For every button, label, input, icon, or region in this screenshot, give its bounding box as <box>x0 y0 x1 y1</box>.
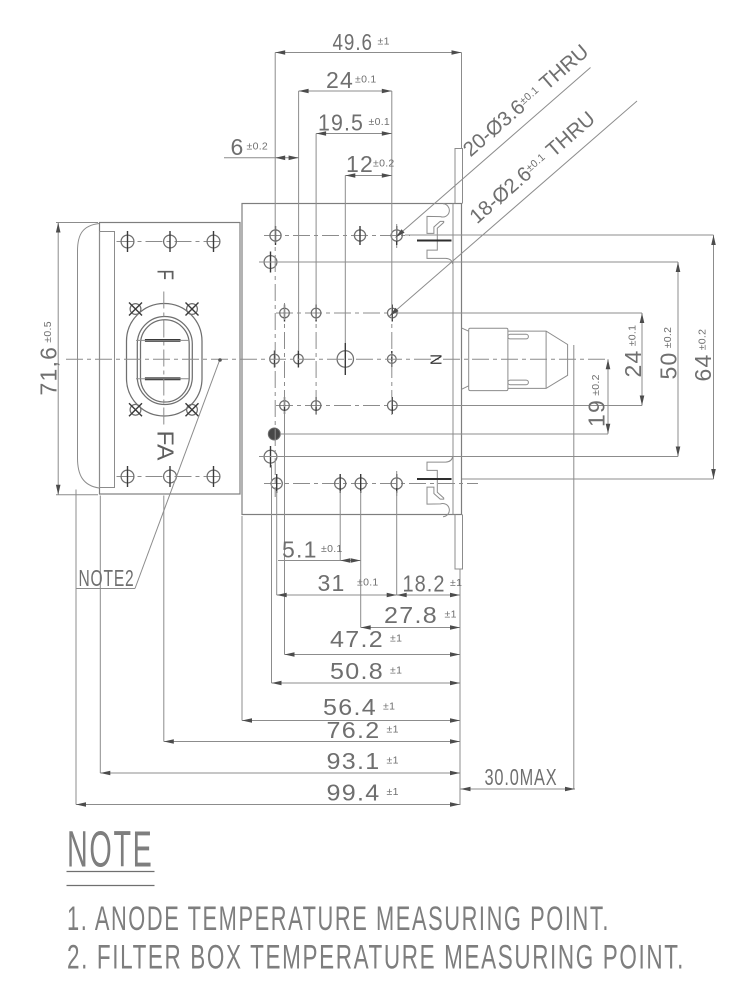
box hole B1 <box>270 226 281 245</box>
dimension 49.6 +-1 (top) <box>275 29 461 226</box>
dimension 56.4 +-1 <box>242 694 460 723</box>
box hole F1 <box>280 397 290 414</box>
bottom extension line from hole G1 <box>271 465 273 683</box>
dimension 64 +-0.2 (right) <box>690 235 716 479</box>
extension line row1 right <box>405 234 714 236</box>
box hole row3 centerline <box>276 312 400 314</box>
dimension 93.1 +-1 <box>100 748 460 775</box>
window outer flange <box>127 304 203 417</box>
dimension 24 +-0.1 (top) <box>299 67 392 351</box>
bottom extension line from flange left edge <box>99 496 101 774</box>
dimension 24 +-0.1 (right) <box>620 313 646 406</box>
top tab <box>455 149 463 204</box>
magnet body profile (left rounded outline) <box>78 224 100 489</box>
svg-text:47.2: 47.2 <box>330 626 384 652</box>
dimension 12 +-0.2 (top) <box>345 151 394 343</box>
window corner hole 1 <box>129 303 142 316</box>
bottom extension line from hole H1 <box>276 491 278 595</box>
dimension 6 +-0.2 (top left) <box>224 134 299 160</box>
svg-text:N: N <box>427 354 444 365</box>
bottom tab <box>455 515 463 570</box>
dimension 76.2 +-1 <box>164 717 460 744</box>
box hole F2 <box>311 397 321 414</box>
dimension 31 +-0.1 <box>277 570 397 597</box>
svg-text:±1: ±1 <box>383 701 395 713</box>
svg-text:24: 24 <box>326 67 354 93</box>
top clip (spring clip on box right) <box>427 204 453 264</box>
bottom extension line from tab (right reference) <box>459 569 461 805</box>
main horizontal centerline <box>66 358 608 360</box>
svg-text:12: 12 <box>346 151 374 177</box>
dimension 19.5 +-0.1 (top) <box>316 110 392 304</box>
svg-text:27.8: 27.8 <box>384 602 438 628</box>
flange hole A5 <box>164 466 177 487</box>
box hole E2 <box>294 351 304 368</box>
svg-text:31: 31 <box>318 570 346 596</box>
NOTE2 callout <box>76 358 222 591</box>
flange hole A1 <box>121 231 134 252</box>
antenna cap body <box>508 331 568 388</box>
svg-text:±1: ±1 <box>387 755 399 767</box>
vane bar lower <box>145 377 181 380</box>
svg-text:1. ANODE TEMPERATURE MEASURING: 1. ANODE TEMPERATURE MEASURING POINT. <box>67 900 610 938</box>
filter box inner right edge <box>452 204 454 515</box>
bottom extension line from hole H4 <box>396 491 398 595</box>
svg-text:F: F <box>153 270 179 281</box>
dimension 5.1 +-0.1 <box>278 537 361 563</box>
svg-text:19.5: 19.5 <box>318 110 364 136</box>
column centerline c5 bottom <box>396 471 398 496</box>
column centerline c3 <box>315 303 317 416</box>
column centerline c2 <box>284 303 286 416</box>
extension line row2 right <box>259 261 678 263</box>
box hole B3 <box>391 226 402 245</box>
box hole E1 <box>270 351 280 368</box>
column centerline c4 <box>391 303 393 416</box>
flange hole A6 <box>207 466 220 487</box>
bottom clip (mirror of top clip) <box>427 457 453 517</box>
leader 20-dia3.6 +-0.1 THRU <box>394 40 593 239</box>
svg-text:±0.1: ±0.1 <box>369 116 391 128</box>
leader 18-dia2.6 +-0.1 THRU <box>388 101 637 318</box>
NOTE title underline 1 <box>67 871 155 873</box>
NOTE title underline 2 <box>67 885 155 887</box>
vane bar upper <box>145 339 181 342</box>
box hole H1 <box>271 474 282 493</box>
window vertical centerline <box>163 292 165 429</box>
box hole row5 centerline <box>276 405 400 407</box>
dimension 18.2 +-1 <box>397 571 463 598</box>
filter box body <box>242 204 462 515</box>
svg-text:NOTE: NOTE <box>67 821 154 878</box>
window corner hole 3 <box>129 403 142 416</box>
bottom extension line from hole H3 <box>360 491 362 628</box>
svg-text:±1: ±1 <box>390 665 402 677</box>
bottom extension line from hole F1 <box>284 413 286 655</box>
window corner hole 4 <box>186 403 199 416</box>
flange hole A2 <box>164 231 177 252</box>
svg-text:18.2: 18.2 <box>403 571 446 597</box>
svg-text:±0.2: ±0.2 <box>247 141 269 153</box>
flange hole row top centerline <box>117 241 225 243</box>
flange hole A3 <box>207 231 220 252</box>
box hole H4 <box>391 474 402 493</box>
box hole row7 centerline <box>264 483 478 485</box>
window mid ring <box>137 317 192 405</box>
svg-text:±0.2: ±0.2 <box>373 158 395 170</box>
window inner ring <box>141 320 190 402</box>
dimension 27.8 +-1 <box>361 602 460 630</box>
extension line filled hole right <box>281 433 608 435</box>
svg-text:93.1: 93.1 <box>327 748 381 774</box>
bottom extension line from window center <box>163 496 165 742</box>
anode temperature measuring mark (top clip) <box>417 240 452 242</box>
dimension 19 +-0.2 (right) <box>584 359 611 434</box>
antenna cylinder <box>469 328 508 390</box>
box hole C1 <box>264 252 277 273</box>
svg-text:±1: ±1 <box>445 609 457 621</box>
box hole G1 <box>264 446 277 468</box>
svg-text:±1: ±1 <box>387 724 399 736</box>
svg-text:2. FILTER BOX TEMPERATURE MEAS: 2. FILTER BOX TEMPERATURE MEASURING POIN… <box>67 939 685 977</box>
box hole row1 centerline <box>264 235 410 237</box>
svg-text:FA: FA <box>153 431 179 461</box>
svg-text:76.2: 76.2 <box>327 717 381 743</box>
svg-text:±0.1: ±0.1 <box>355 74 377 86</box>
antenna slot bottom <box>508 380 529 385</box>
box hole H3 <box>355 474 366 493</box>
flange hole A4 <box>121 466 134 487</box>
flange edge bar <box>100 232 115 488</box>
box hole F3 <box>388 397 398 414</box>
box hole E3 (large) <box>337 343 353 375</box>
antenna slot top <box>508 334 529 339</box>
svg-text:±1: ±1 <box>378 36 390 48</box>
dimension 50 +-0.2 (right) <box>656 262 682 457</box>
filled hole (measuring point) <box>268 428 280 440</box>
svg-text:±0.1: ±0.1 <box>321 543 343 555</box>
svg-text:49.6: 49.6 <box>333 29 374 55</box>
svg-text:±1: ±1 <box>387 786 399 798</box>
antenna cap left edge <box>545 331 547 388</box>
flange hole row bottom centerline <box>117 476 225 478</box>
svg-text:±1: ±1 <box>390 633 402 645</box>
box hole D2 <box>311 305 321 322</box>
box hole B2 <box>354 226 365 245</box>
column centerline c5 top <box>396 224 398 248</box>
bottom extension line from hole H2 <box>339 491 341 561</box>
svg-text:±0.1: ±0.1 <box>357 577 379 589</box>
svg-text:NOTE2: NOTE2 <box>79 565 135 591</box>
svg-text:±1: ±1 <box>450 577 462 589</box>
dimension 30.0MAX <box>461 345 576 791</box>
dimension 71.6 +-0.5 (left) <box>36 223 99 495</box>
extension line mark bottom right <box>462 478 714 480</box>
box hole E4 <box>387 351 396 367</box>
mounting flange plate <box>100 223 241 495</box>
svg-text:30.0MAX: 30.0MAX <box>485 764 558 790</box>
svg-text:50.8: 50.8 <box>330 658 384 684</box>
svg-text:6: 6 <box>231 134 245 160</box>
column centerline c1 <box>274 226 276 497</box>
dimension 99.4 +-1 <box>76 780 460 807</box>
box hole H2 <box>335 474 346 493</box>
svg-text:99.4: 99.4 <box>327 780 381 806</box>
svg-text:5.1: 5.1 <box>282 537 318 563</box>
antenna neck <box>462 328 469 389</box>
window corner hole 2 <box>186 303 199 316</box>
dimension 50.8 +-1 <box>272 658 461 685</box>
dimension 47.2 +-1 <box>285 626 461 657</box>
filter box temperature measuring mark (bottom clip) <box>417 478 452 480</box>
bottom extension line from body profile left <box>75 490 77 805</box>
extension line row6 right <box>259 456 678 458</box>
extension line hole D3 right <box>398 312 642 314</box>
box hole D1 <box>280 305 290 322</box>
extension line hole F3 right <box>398 405 642 407</box>
bottom extension line from box left edge <box>241 516 243 721</box>
box hole D3 <box>388 305 398 322</box>
